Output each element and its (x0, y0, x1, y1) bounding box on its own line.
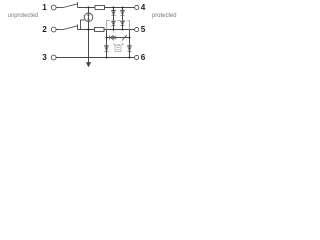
wire diode column A (113, 8, 115, 30)
junction dot row2 GDT (88, 29, 90, 31)
svg-text:protected: protected (152, 12, 177, 19)
mechanical linkage dashed vertical A (113, 31, 115, 45)
bottom diode left (105, 46, 109, 52)
wire row2 horizontal (78, 29, 135, 31)
suppressor diode D1 upper column A (112, 10, 116, 15)
switch blade row1 (56, 7, 63, 9)
wire module left vertical (106, 30, 108, 58)
ground arrow head (86, 62, 91, 67)
terminal 2 circle (51, 27, 56, 32)
svg-text:3: 3 (42, 53, 47, 62)
svg-text:unprotected: unprotected (8, 12, 39, 19)
gas discharge tube F1 (84, 13, 93, 22)
resistor R1 (95, 6, 105, 10)
wire row1 horizontal (78, 7, 135, 9)
svg-text:6: 6 (141, 53, 146, 62)
wire module right vertical upper (light) (129, 21, 131, 30)
mechanical linkage dashed vertical B (122, 39, 124, 44)
junction dot ground left (106, 57, 108, 59)
switch contact tick row2 (77, 24, 79, 29)
svg-text:4: 4 (141, 3, 146, 12)
wire diode column B (122, 8, 124, 30)
suppressor diode D3 lower column A (112, 21, 116, 26)
bottom diode right (128, 46, 132, 52)
switch contact tick row1 (77, 2, 79, 8)
junction dot branch left (106, 37, 108, 39)
resistor R2 (95, 28, 105, 32)
wire GDT vertical (88, 8, 90, 30)
junction dot row1 colA (113, 7, 115, 9)
terminal 4 circle (135, 5, 139, 9)
terminal 6 circle (135, 55, 139, 59)
junction dot branch right (129, 37, 131, 39)
terminal 1 circle (51, 5, 56, 10)
branch disconnect slash (122, 35, 126, 40)
wire ground row horizontal (56, 57, 134, 59)
suppressor diode D2 upper column B (121, 10, 125, 15)
svg-text:2: 2 (42, 25, 47, 34)
suppressor diode D4 lower column B (121, 21, 125, 26)
mechanical linkage dashed horizontal (114, 43, 125, 45)
junction dot ground right (129, 57, 131, 59)
svg-text:1: 1 (42, 3, 47, 12)
svg-text:5: 5 (141, 25, 146, 34)
wire module left vertical upper (light) (106, 21, 108, 30)
junction dot row2 colB (122, 29, 124, 31)
junction dot row2 colA (113, 29, 115, 31)
wire GDT to ground arrow shaft (88, 30, 90, 63)
terminal 3 circle (51, 55, 56, 60)
indicator square (115, 46, 121, 52)
branch diode pair back to back (110, 35, 116, 39)
junction dot row1 colB (122, 7, 124, 9)
junction dot row1 GDT (88, 7, 90, 9)
terminal 5 circle (135, 27, 139, 31)
wire module right vertical (129, 30, 131, 58)
wire GDT left arm (81, 20, 85, 30)
branch wire y37.5 (107, 37, 130, 39)
dashed module box top edge (107, 20, 130, 22)
switch blade row2 (56, 29, 63, 31)
